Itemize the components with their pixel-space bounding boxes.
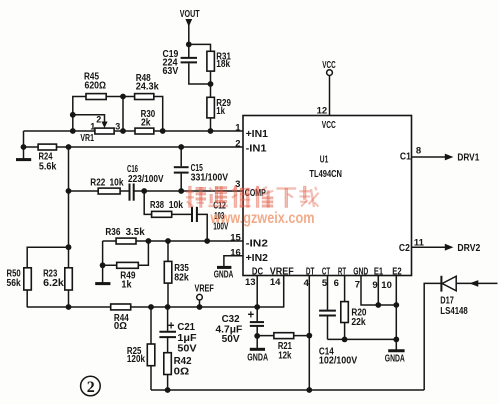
resistor R22 xyxy=(90,176,123,194)
pin number 1 xyxy=(235,122,241,133)
svg-text:3: 3 xyxy=(115,122,120,132)
diode D17 LS4148 xyxy=(440,276,468,317)
terminal VOUT xyxy=(180,8,200,27)
svg-text:1k: 1k xyxy=(121,278,131,290)
junction R35 / -IN2 xyxy=(165,238,171,244)
svg-text:2: 2 xyxy=(96,115,101,125)
wire VCC drop to pin 12 xyxy=(329,75,331,115)
pin number 14 xyxy=(270,277,281,288)
svg-text:12: 12 xyxy=(317,106,328,117)
wire R48 right drop xyxy=(154,97,163,132)
wire R38 branch xyxy=(144,191,191,214)
pin number 12 xyxy=(317,106,328,117)
wire VOUT to R31 xyxy=(189,44,211,84)
capacitor C16 xyxy=(127,163,164,201)
svg-text:15: 15 xyxy=(230,233,241,244)
svg-text:10k: 10k xyxy=(169,199,184,211)
wire C32 branch xyxy=(256,307,258,349)
IC U1 TL494CN body xyxy=(243,116,412,276)
U1 bottom label RT xyxy=(338,267,346,278)
wire pin 16 +IN2 to GNDA xyxy=(224,256,243,267)
svg-text:9: 9 xyxy=(372,280,377,291)
resistor R49 xyxy=(117,262,139,290)
U1 pin 11 label C2 xyxy=(399,243,410,254)
wire pin 5 CT / C14 xyxy=(327,276,329,340)
pin number 9 xyxy=(372,280,377,291)
svg-text:2: 2 xyxy=(235,138,240,149)
wire R49 row xyxy=(103,241,149,265)
svg-text:6: 6 xyxy=(334,278,339,289)
ground GNDA (E pins) xyxy=(388,339,404,350)
wire R36 left drop xyxy=(102,241,104,265)
watermark url xyxy=(210,210,315,227)
svg-text:www.gzweix.com: www.gzweix.com xyxy=(210,210,315,227)
junction R45 / VR1 wiper xyxy=(70,112,76,118)
U1 pin 15 label -IN2 xyxy=(246,238,269,249)
junction C15 / COMP xyxy=(178,188,184,194)
svg-text:VOUT: VOUT xyxy=(180,8,200,20)
U1 bottom label DC xyxy=(252,267,263,278)
arrow VR1 wiper xyxy=(101,122,107,129)
label DRV2 xyxy=(457,242,480,254)
junction R36 / R49 / ground xyxy=(100,262,106,268)
svg-text:U1: U1 xyxy=(320,154,329,166)
ground GNDA (+IN2) xyxy=(217,266,231,269)
svg-text:GND: GND xyxy=(353,267,368,278)
svg-text:C1: C1 xyxy=(400,151,411,162)
svg-text:3.5k: 3.5k xyxy=(126,226,145,238)
U1 bottom label VREF xyxy=(270,267,294,278)
junction R50 branch xyxy=(66,244,72,250)
svg-text:+: + xyxy=(248,309,255,321)
svg-text:11: 11 xyxy=(414,237,425,248)
svg-text:14: 14 xyxy=(270,277,281,288)
junction R42 / bottom rail xyxy=(165,387,171,393)
terminal VCC xyxy=(322,59,336,76)
wire pin 11 C2 out xyxy=(412,246,447,248)
junction R35 / C21 / rail xyxy=(165,304,171,310)
wire pin 8 C1 out xyxy=(412,156,447,158)
capacitor C32 (polarized) xyxy=(216,309,265,345)
svg-text:0Ω: 0Ω xyxy=(174,365,190,377)
resistor R35 xyxy=(164,261,189,283)
U1 part number TL494CN xyxy=(309,168,342,180)
label DRV1 xyxy=(457,151,479,163)
wire R50 loop xyxy=(27,247,68,307)
svg-text:1: 1 xyxy=(90,122,95,132)
svg-text:13: 13 xyxy=(245,277,256,288)
label GNDA (C32 ground) xyxy=(247,352,268,363)
ground GNDA (C32) xyxy=(250,348,265,351)
junction R22 branch xyxy=(66,188,72,194)
pin number 2 xyxy=(235,138,240,149)
svg-text:6.2k: 6.2k xyxy=(43,277,64,289)
svg-text:10k: 10k xyxy=(110,176,124,188)
svg-text:16: 16 xyxy=(230,247,241,258)
wire -IN2 line (pin 15 net) xyxy=(103,240,243,242)
svg-text:+IN2: +IN2 xyxy=(246,253,269,264)
potentiometer VR1 xyxy=(80,115,120,144)
svg-text:R38: R38 xyxy=(150,199,164,211)
resistor R24 xyxy=(38,144,56,173)
junction R24 / feedback bus xyxy=(66,144,72,150)
junction C32 / R21 / GNDA xyxy=(254,333,260,339)
wire R25 vertical xyxy=(150,307,152,390)
pin number 3 xyxy=(235,179,240,190)
pin number 5 xyxy=(322,278,328,289)
svg-text:24.3k: 24.3k xyxy=(136,80,159,92)
svg-text:18k: 18k xyxy=(216,58,230,70)
junction DC pin13 / C32 / rail xyxy=(254,304,260,310)
svg-text:5: 5 xyxy=(322,278,328,289)
junction VREF terminal / rail xyxy=(197,304,203,310)
capacitor C19 xyxy=(163,48,198,77)
junction VR1 pin1 / +IN1 xyxy=(70,128,76,134)
resistor R30 xyxy=(135,108,155,134)
svg-text:0Ω: 0Ω xyxy=(114,320,127,332)
svg-text:82k: 82k xyxy=(174,271,189,283)
wire pin 9 E1 drop xyxy=(377,276,379,306)
pin number 6 xyxy=(334,278,339,289)
resistor R50 xyxy=(7,268,32,290)
junction C12 / -IN2 xyxy=(204,238,210,244)
junction R36 / R49 / -IN2 xyxy=(146,238,152,244)
wire C19 bottom leg xyxy=(189,63,211,84)
U1 bottom label CT xyxy=(322,267,330,278)
pin number 10 xyxy=(381,280,392,291)
pin number 11 xyxy=(414,237,425,248)
U1 pin 3 label COMP xyxy=(245,188,266,199)
wire pin 10 E2 drop xyxy=(395,276,397,340)
capacitor C14 xyxy=(319,311,357,367)
capacitor C12 xyxy=(192,200,228,233)
svg-text:331/100V: 331/100V xyxy=(191,172,229,184)
resistor R38 xyxy=(150,199,183,217)
resistor R45 xyxy=(84,71,106,100)
U1 bottom label E2 xyxy=(392,267,402,278)
junction DT / bottom rail xyxy=(306,387,312,393)
wire -IN1 line (pin 2 net) xyxy=(24,146,244,148)
U1 pin 2 label -IN1 xyxy=(246,143,267,154)
wire C14-R20-E bottom row xyxy=(328,338,397,340)
svg-text:1k: 1k xyxy=(216,105,225,117)
svg-text:+: + xyxy=(168,321,175,333)
wire R21 row xyxy=(257,335,309,337)
wire pin 14 VREF drop xyxy=(283,276,285,308)
U1 pin 1 label +IN1 xyxy=(246,129,269,140)
svg-text:E1: E1 xyxy=(374,267,384,278)
junction R29 / +IN1 xyxy=(208,128,214,134)
wire C12 to -IN2 xyxy=(197,214,207,241)
svg-text:620Ω: 620Ω xyxy=(85,79,107,91)
arrow DRV1 xyxy=(445,154,454,161)
capacitor C15 xyxy=(174,147,228,190)
junction R20 bottom xyxy=(342,337,348,343)
svg-text:102/100V: 102/100V xyxy=(319,354,357,366)
pin number 8 xyxy=(416,146,421,157)
junction E pins / C14-R20 row / GNDA xyxy=(393,337,399,343)
svg-text:+IN1: +IN1 xyxy=(246,129,269,140)
wire corner +IN1 to -IN1 left xyxy=(23,131,25,147)
resistor R36 xyxy=(105,226,144,244)
svg-text:-IN1: -IN1 xyxy=(246,143,267,154)
svg-text:LS4148: LS4148 xyxy=(440,305,468,317)
svg-text:GNDA: GNDA xyxy=(247,352,268,363)
svg-text:RT: RT xyxy=(338,267,346,278)
pin number 15 xyxy=(230,233,241,244)
wire R35 vertical xyxy=(167,241,169,307)
wire pin 7 GND drop xyxy=(361,276,396,306)
junction R48 drop / +IN1 xyxy=(160,128,166,134)
U1 bottom label GND xyxy=(353,267,368,278)
ground (left, R24) xyxy=(16,147,31,160)
junction R21 / DT line xyxy=(306,333,312,339)
capacitor C21 (polarized) xyxy=(159,321,197,355)
svg-text:2k: 2k xyxy=(141,116,151,128)
pin number 7 xyxy=(355,279,360,290)
svg-text:DT: DT xyxy=(306,267,315,278)
junction C16 / R38 / COMP xyxy=(141,188,147,194)
wire VREF terminal stub xyxy=(199,300,201,307)
svg-text:TL494CN: TL494CN xyxy=(309,168,342,180)
U1 bottom label DT xyxy=(306,267,315,278)
wire pin 13 DC drop xyxy=(256,276,258,308)
wire node x123 drop xyxy=(122,97,124,132)
svg-text:DRV1: DRV1 xyxy=(457,151,479,163)
svg-text:DRV2: DRV2 xyxy=(457,242,480,254)
svg-text:R36: R36 xyxy=(105,226,120,238)
svg-text:GNDA: GNDA xyxy=(214,269,234,280)
resistor R29 xyxy=(207,97,231,118)
resistor R20 xyxy=(341,302,367,329)
wire VOUT drop / C19 top xyxy=(188,24,190,57)
svg-text:7: 7 xyxy=(355,279,360,290)
svg-text:VR1: VR1 xyxy=(80,132,94,144)
svg-text:223/100V: 223/100V xyxy=(128,173,164,185)
svg-text:-IN2: -IN2 xyxy=(246,238,269,249)
svg-text:VREF: VREF xyxy=(195,282,215,294)
resistor R44 xyxy=(111,304,131,332)
svg-text:CT: CT xyxy=(322,267,330,278)
label GNDA (+IN2 ground) xyxy=(214,269,234,280)
svg-text:VCC: VCC xyxy=(322,120,336,131)
pin number 13 xyxy=(245,277,256,288)
arrow DRV2 xyxy=(445,244,454,251)
resistor R42 xyxy=(164,353,192,378)
wire vertical feedback bus x=68.5 xyxy=(68,147,70,307)
svg-text:5.6k: 5.6k xyxy=(39,161,57,173)
terminal VREF xyxy=(195,282,215,300)
svg-text:22k: 22k xyxy=(351,316,365,328)
junction C15 / -IN1 xyxy=(178,144,184,150)
junction ground / R24 / -IN1 xyxy=(21,144,27,150)
wire pin 4 DT vertical xyxy=(308,276,310,391)
svg-text:GNDA: GNDA xyxy=(385,353,405,364)
svg-text:R22: R22 xyxy=(90,176,105,188)
svg-text:1: 1 xyxy=(235,122,241,133)
svg-text:50V: 50V xyxy=(222,333,240,345)
U1 pin 12 label VCC (top) xyxy=(322,120,336,131)
resistor R25 xyxy=(127,344,155,366)
wire bottom rail (DT net) xyxy=(151,389,424,391)
wire R45 loop xyxy=(73,97,86,132)
resistor R21 xyxy=(274,333,294,362)
wire R22/C16 to COMP (pin 3 net) left xyxy=(69,190,130,192)
U1 pin 8 label C1 xyxy=(400,151,411,162)
resistor R23 xyxy=(43,268,72,290)
resistor R48 xyxy=(135,72,159,100)
wire C21 top stub xyxy=(167,307,169,331)
svg-text:8: 8 xyxy=(416,146,421,157)
wire VREF rail (R44 line) xyxy=(27,306,284,308)
U1 label xyxy=(320,154,329,166)
svg-text:E2: E2 xyxy=(392,267,402,278)
junction R45 / R48 xyxy=(120,94,126,100)
junction E2 / GND7 row xyxy=(393,302,399,308)
junction C19 / R31 / R29 xyxy=(208,81,214,87)
wire +IN1 line (pin 1 net) xyxy=(24,130,244,132)
U1 bottom label E1 xyxy=(374,267,384,278)
junction VOUT / C19 / R31 xyxy=(186,42,192,48)
U1 pin 16 label +IN2 xyxy=(246,253,269,264)
svg-text:10: 10 xyxy=(381,280,392,291)
junction E1 / GND7 row xyxy=(375,302,381,308)
junction R23 / R50 / R44 xyxy=(66,304,72,310)
wire D17 cathode to bottom rail xyxy=(424,283,441,390)
junction R45-R48 drop / +IN1 xyxy=(120,128,126,134)
wire VR1 wiper link xyxy=(73,115,105,124)
wire COMP net right of C16 xyxy=(134,190,243,192)
wire pin 6 RT / R20 vertical xyxy=(344,276,346,340)
svg-text:120k: 120k xyxy=(127,353,145,365)
wire C21/R42/bottom xyxy=(167,338,169,390)
svg-text:56k: 56k xyxy=(7,277,21,289)
arrow into D17 xyxy=(469,280,478,287)
svg-text:63V: 63V xyxy=(163,65,179,77)
label GNDA (E pins ground) xyxy=(385,353,405,364)
resistor R31 xyxy=(207,50,231,71)
svg-text:4: 4 xyxy=(304,278,310,289)
wire R45 right / R48 left node xyxy=(106,96,134,98)
svg-text:50V: 50V xyxy=(177,342,196,354)
junction R44 / R25 xyxy=(148,304,154,310)
ground (R36/R49 node) xyxy=(95,265,110,283)
svg-text:12k: 12k xyxy=(278,350,291,362)
watermark CJK text xyxy=(186,186,319,207)
pin number 4 xyxy=(304,278,310,289)
figure number 2 (circled) xyxy=(81,376,101,396)
svg-text:C2: C2 xyxy=(399,243,410,254)
svg-text:2: 2 xyxy=(87,379,95,396)
wire R31-R29 to +IN1 xyxy=(210,84,212,131)
pin number 16 xyxy=(230,247,241,258)
wire D17 anode in xyxy=(456,282,498,284)
